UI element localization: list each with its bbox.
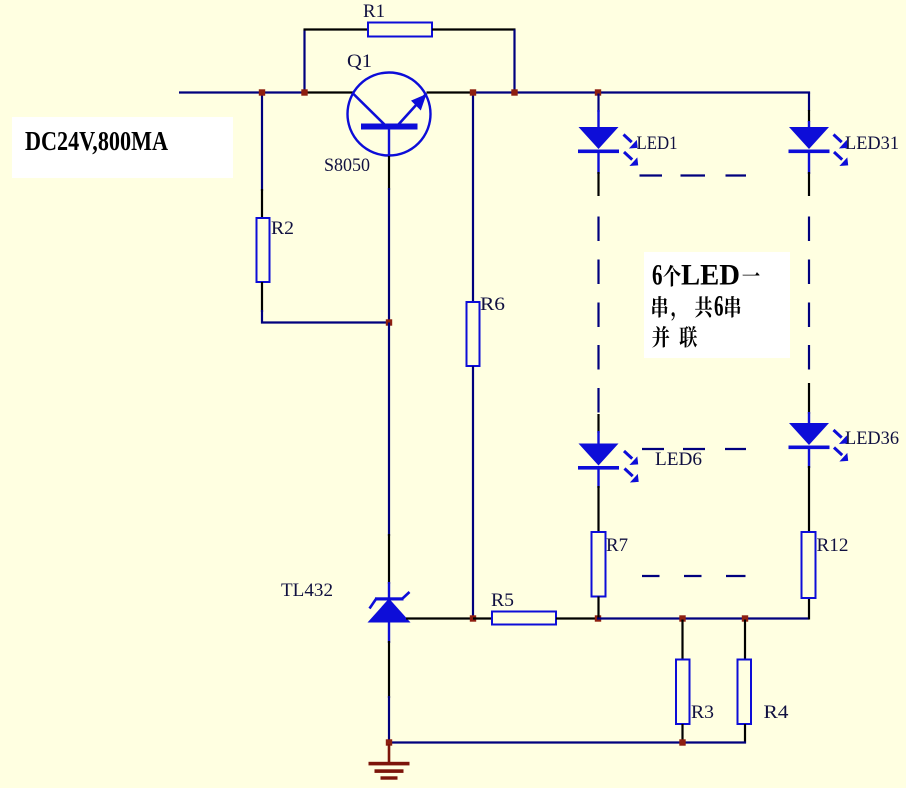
wire LED6 to R7 (black)	[597, 486, 599, 532]
LED LED31	[789, 127, 829, 149]
wire LED1 down (black)	[597, 172, 599, 196]
dashed line mid (LED6 row)	[642, 448, 664, 450]
resistor R4	[738, 660, 752, 725]
wire R6 to bottom rail (navy)	[472, 366, 474, 618]
transistor Q1 emitter arrowhead	[411, 94, 427, 111]
wire Q1 emitter pin to junction (black)	[427, 91, 475, 93]
wire top rail right segment (navy)	[472, 91, 810, 93]
LED6 emission arrow 2	[625, 469, 633, 477]
ground stub	[388, 744, 391, 763]
dashed line bottom (R7 row)	[642, 575, 660, 577]
wire TL432 to ground rail (navy)	[388, 696, 390, 743]
wire LED1 cathode pin (blue)	[597, 153, 599, 174]
wire LED6 cathode pin (blue)	[597, 470, 599, 489]
junction rail/LED1	[595, 89, 601, 95]
resistor R6	[467, 302, 480, 366]
svg-text:LED36: LED36	[845, 428, 899, 449]
junction ground/TL432	[386, 739, 392, 745]
wire R2 top pin (black)	[261, 189, 263, 218]
wire Q1 base to node (navy)	[388, 188, 390, 324]
transistor Q1 bar	[361, 124, 418, 130]
svg-text:6: 6	[714, 290, 724, 323]
junction R4 top node	[742, 615, 748, 621]
wire R4 bottom pin (black)	[744, 724, 746, 744]
wire LED36 anode pin (blue)	[808, 412, 810, 424]
svg-text:LED1: LED1	[637, 133, 678, 154]
wire to LED36 (black)	[808, 383, 810, 414]
wire R3 bottom pin (black)	[681, 724, 683, 744]
LED36 emission arrow 2	[834, 448, 842, 456]
ground bar 3	[381, 776, 398, 779]
transistor Q1 collector diagonal	[353, 94, 385, 126]
svg-text:R6: R6	[480, 294, 505, 315]
ground bar 1	[369, 762, 410, 766]
LED1 emission arrow 2	[624, 152, 632, 160]
TL432 cathode bar	[375, 597, 404, 600]
dashed line top (LED1 row)	[640, 174, 663, 176]
transistor Q1 emitter diagonal	[398, 94, 427, 126]
svg-text:R3: R3	[691, 702, 714, 723]
dashed link LED1..LED6	[597, 217, 599, 242]
note line2: 串，共6串	[652, 296, 667, 318]
LED LED6	[579, 444, 619, 466]
LED31 emission arrow 2	[834, 152, 842, 160]
svg-text:R12: R12	[817, 535, 849, 556]
wire rail to R6 (navy)	[472, 94, 474, 303]
junction rail/R1 left	[301, 89, 307, 95]
wire R4 top pin (black)	[744, 620, 746, 660]
wire TL432 cathode tip (blue)	[388, 582, 390, 599]
wire node to TL432 (navy)	[388, 323, 390, 537]
junction rail/R6	[470, 89, 476, 95]
LED LED36	[789, 423, 829, 445]
wire TL432 anode pin (black)	[388, 641, 390, 698]
resistor R3	[676, 660, 690, 725]
wire LED31 cathode pin (blue)	[808, 153, 810, 174]
transistor Q1 body circle	[348, 73, 431, 156]
wire R1 right horizontal	[432, 28, 516, 30]
junction rail/R1 right	[511, 89, 517, 95]
dashed link LED31..LED36	[808, 217, 810, 242]
wire top rail left segment (navy)	[179, 91, 306, 93]
wire LED6 anode pin (blue)	[597, 431, 599, 444]
wire LED31 down (black)	[808, 172, 810, 196]
LED1 emission arrow 1	[624, 135, 632, 143]
svg-text:6: 6	[652, 259, 663, 292]
wire R3 top pin (black)	[681, 620, 683, 660]
resistor R2	[257, 218, 270, 282]
svg-text:LED: LED	[681, 259, 740, 292]
svg-text:TL432: TL432	[281, 580, 333, 601]
wire R7 bottom pin (black)	[597, 597, 599, 618]
LED31 emission arrow 1	[834, 135, 842, 143]
wire R5 left pin (black)	[473, 617, 492, 619]
resistor R1	[368, 23, 432, 37]
svg-text:R2: R2	[271, 218, 294, 239]
svg-text:R7: R7	[606, 535, 628, 556]
LED6 emission arrow 1	[624, 451, 632, 459]
wire mid rail (navy)	[597, 617, 809, 619]
svg-text:S8050: S8050	[324, 155, 370, 176]
wire R5 right pin (black)	[556, 617, 599, 619]
wire R1 left horizontal	[304, 28, 369, 30]
wire R2 to base node (navy)	[262, 310, 390, 323]
wire R2 bottom pin (black)	[261, 282, 263, 312]
wire LED1 anode pin (blue)	[597, 110, 599, 128]
text box 6-LED note	[644, 252, 790, 358]
ground bar 2	[375, 769, 404, 773]
junction ground/R3	[679, 739, 685, 745]
note line3: 并联	[652, 326, 669, 348]
wire base-side pin to Q1 (black)	[304, 91, 354, 93]
svg-text:R4: R4	[764, 702, 790, 723]
svg-text:LED6: LED6	[655, 449, 702, 470]
wire Q1 base pin (black)	[388, 156, 390, 190]
wire TL432 anode pin (blue)	[388, 622, 390, 643]
junction R7 bottom	[595, 615, 601, 621]
junction R6 bottom	[470, 615, 476, 621]
wire to LED6 (black)	[597, 414, 599, 433]
wire TL432 to R6 node (black)	[406, 617, 474, 619]
text box DC24V	[12, 117, 233, 178]
wire rail to LED1 (navy)	[597, 94, 599, 113]
wire LED31 anode tip (blue)	[808, 121, 810, 128]
svg-text:LED31: LED31	[845, 133, 899, 154]
wire LED31 anode pin (black)	[808, 110, 810, 122]
resistor R12	[802, 532, 816, 598]
resistor R5	[492, 612, 556, 625]
TL432 bar right tick	[403, 592, 410, 599]
LED LED1	[579, 127, 619, 149]
junction R3 top node	[679, 615, 685, 621]
wire LED36 to R12 (black)	[808, 466, 810, 532]
LED36 emission arrow 1	[834, 430, 842, 438]
wire TL432 cathode pin (black)	[388, 534, 390, 584]
TL432 anode triangle	[368, 599, 411, 623]
wire R1 right vertical	[513, 30, 515, 94]
wire rail corner to LED31 (navy)	[808, 93, 810, 112]
wire rail to R2 (navy)	[261, 94, 263, 192]
transistor Q1 base lead (blue)	[388, 130, 390, 157]
svg-text:R1: R1	[363, 1, 385, 22]
wire ground rail (navy)	[389, 741, 746, 743]
svg-text:DC24V,800MA: DC24V,800MA	[25, 126, 168, 156]
resistor R7	[592, 532, 606, 597]
junction base node	[386, 319, 392, 325]
wire R1 left vertical	[303, 30, 305, 94]
svg-text:Q1: Q1	[347, 51, 372, 72]
wire R12 bottom pin (black)	[808, 598, 810, 620]
svg-text:R5: R5	[491, 590, 514, 611]
TL432 bar left tick	[370, 599, 377, 609]
wire LED36 cathode pin (blue)	[808, 448, 810, 469]
junction rail/R2	[259, 89, 265, 95]
